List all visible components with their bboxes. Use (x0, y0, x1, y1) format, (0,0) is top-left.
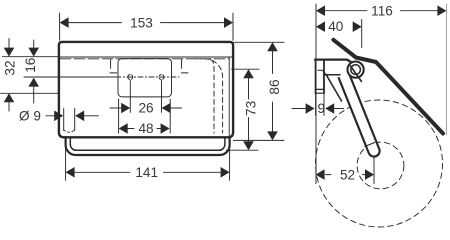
dim 26 arrow left (121, 103, 130, 114)
dim 16 arrow down (28, 48, 39, 57)
toilet roll core dashed circle (357, 142, 404, 189)
mounting plate hidden outline (118, 59, 172, 97)
svg-text:141: 141 (135, 165, 158, 180)
dim 48 line right (157, 128, 161, 130)
dim 86 top reference line (234, 41, 284, 43)
holder body front view (59, 42, 233, 137)
cover lid raised (333, 40, 443, 134)
svg-text:153: 153 (130, 15, 153, 30)
dim 73 line (248, 78, 250, 141)
dim 16 arrow up (28, 78, 39, 87)
svg-text:16: 16 (23, 58, 38, 73)
dim 73 top reference line (232, 68, 260, 70)
dim 116 arrow right (437, 5, 446, 16)
svg-text:Ø 9: Ø 9 (19, 108, 41, 123)
dim 153 line (68, 22, 224, 24)
dim diameter 9 leader left (46, 115, 55, 117)
svg-text:26: 26 (138, 101, 153, 116)
dim 86 line (272, 51, 274, 131)
dim 48 arrow right (161, 123, 170, 134)
plate left bracket mark (110, 59, 117, 73)
dim 73 arrow up (243, 69, 254, 78)
dim 153 extension lines (60, 13, 233, 40)
svg-text:32: 32 (2, 60, 17, 75)
plate right bracket mark (181, 59, 188, 73)
dim 52 line right (363, 174, 366, 176)
screw hole left (128, 75, 133, 80)
dim 52 arrow right (365, 169, 374, 180)
dim 26 arrow right (162, 103, 171, 114)
dim 52 extension at roll centre (373, 158, 375, 184)
hidden roll arm outer dashed front view (196, 59, 223, 133)
dim 9 arrow left (306, 103, 315, 114)
body seam line (60, 56, 232, 58)
pivot outer circle (348, 62, 364, 78)
dim 116 extension right (445, 4, 447, 135)
dim 26 extension lines (130, 81, 161, 113)
hidden hole arc at rail (64, 130, 75, 132)
svg-text:73: 73 (243, 101, 258, 116)
cover hinge tab edge (351, 66, 362, 82)
dim 48 extension lines (119, 99, 171, 133)
dim 40 arrow right (353, 21, 362, 32)
svg-text:52: 52 (340, 167, 355, 182)
dim 141 line (75, 171, 221, 173)
dim 86 arrow down (267, 131, 278, 140)
dim 32 bottom reference line (1, 92, 59, 94)
dim 141 arrow right (221, 167, 230, 178)
dim 141 extension lines (66, 138, 230, 181)
svg-text:116: 116 (371, 3, 393, 18)
dim 9 leader left (292, 108, 305, 110)
dim 26 leader left (110, 107, 121, 109)
roll rail outer (66, 137, 230, 155)
svg-text:48: 48 (138, 121, 153, 136)
body seam dashed lower line (60, 58, 229, 60)
dim 32 arrow down (4, 48, 15, 57)
screw hole centerline (24, 76, 116, 78)
svg-text:9: 9 (318, 101, 326, 116)
wall plate right edge (323, 60, 325, 94)
dim 86 arrow up (267, 42, 278, 51)
dim diameter 9 arrow right (75, 111, 84, 122)
dim 48 line left (128, 128, 134, 130)
dim 32 top reference line (3, 56, 60, 58)
roll rail inner (70, 137, 225, 150)
dim 52 arrow left (316, 169, 325, 180)
hidden roll arm inner dashed front view (211, 60, 215, 134)
dim 40 arrow left (316, 21, 325, 32)
dim 40 extension right (361, 20, 363, 48)
dim 86 bottom reference line (234, 139, 285, 141)
dim 153 arrow right (224, 17, 233, 28)
dim 48 arrow left (119, 123, 128, 134)
dim diameter 9 arrow left (54, 111, 63, 122)
side view wall line (315, 4, 317, 184)
arm back hidden edge (327, 75, 342, 101)
bracket top edge (315, 60, 353, 63)
dim 9 arrow right (325, 103, 334, 114)
dim 153 arrow left (60, 17, 69, 28)
dim 73 arrow down (243, 141, 254, 150)
dim 52 line left (326, 174, 332, 176)
dim 141 arrow left (66, 167, 75, 178)
roll arm capsule (339, 74, 380, 157)
pivot inner circle (351, 65, 361, 75)
dim 116 arrow left (316, 5, 325, 16)
dim 32 arrow up (4, 93, 15, 102)
svg-text:86: 86 (267, 79, 282, 94)
svg-text:40: 40 (328, 19, 344, 34)
toilet roll outer dashed circle (316, 100, 443, 227)
dim 9 extension lines below plate (316, 94, 324, 116)
bracket bottom edge (324, 74, 340, 76)
wall plate bottom double line (316, 89, 324, 93)
body right inner edge line (228, 58, 230, 137)
roll arm slot line (365, 143, 375, 147)
dim 73 bottom reference line (227, 149, 259, 151)
wall plate left edge (315, 60, 317, 94)
bracket lower step (318, 70, 327, 74)
screw hole right (159, 75, 164, 80)
dim diameter 9 extension lines (64, 108, 75, 130)
dim 116 line (325, 10, 438, 12)
